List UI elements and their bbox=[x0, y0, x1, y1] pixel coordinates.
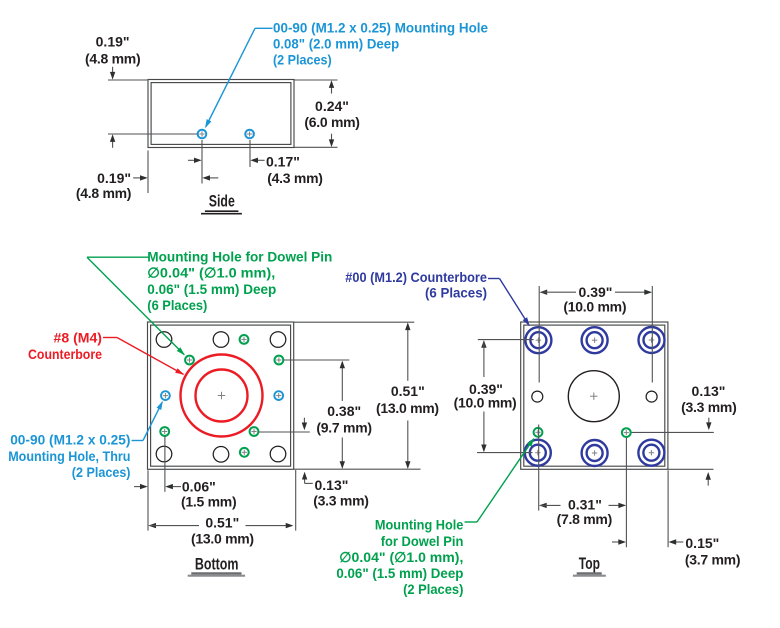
svg-text:Bottom: Bottom bbox=[195, 554, 239, 573]
svg-text:(4.8 mm): (4.8 mm) bbox=[85, 51, 140, 67]
svg-text:0.06" (1.5 mm) Deep: 0.06" (1.5 mm) Deep bbox=[336, 565, 463, 581]
svg-text:(3.3 mm): (3.3 mm) bbox=[681, 399, 736, 415]
dimension 0.19" (4.8 mm) top left bbox=[85, 34, 197, 148]
bottom view dowel pin hole G2 bbox=[275, 356, 284, 365]
svg-text:0.19": 0.19" bbox=[97, 170, 131, 186]
svg-text:0.17": 0.17" bbox=[266, 154, 300, 170]
dimension 0.06" (1.5 mm) bbox=[134, 479, 236, 510]
svg-text:(9.7 mm): (9.7 mm) bbox=[316, 419, 371, 435]
dimension 0.38" (9.7 mm) bbox=[316, 361, 371, 469]
side view mounting hole H1 (00-90) bbox=[198, 130, 207, 139]
leader label 00-90 mounting hole 2 places (side) bbox=[205, 20, 488, 129]
side view extension lines below bbox=[148, 140, 250, 193]
svg-text:Mounting Hole for Dowel Pin: Mounting Hole for Dowel Pin bbox=[147, 249, 332, 265]
top view #00 counterbore T5 bbox=[582, 440, 608, 466]
svg-text:(7.8 mm): (7.8 mm) bbox=[557, 511, 612, 527]
top view #00 counterbore T4 bbox=[525, 440, 551, 466]
leader label mounting hole for dowel pin 2 places bbox=[336, 438, 534, 597]
top view side hole left bbox=[532, 391, 543, 402]
leader label #00 (M1.2) counterbore 6 places bbox=[345, 269, 529, 327]
svg-text:00-90 (M1.2 x 0.25): 00-90 (M1.2 x 0.25) bbox=[10, 432, 130, 448]
bottom view #8 (M4) counterbore outer circle bbox=[181, 355, 263, 437]
svg-text:Counterbore: Counterbore bbox=[28, 346, 102, 362]
bottom view #8 (M4) counterbore inner circle bbox=[196, 370, 248, 422]
top view #00 counterbore T2 bbox=[582, 327, 608, 353]
leader label #8 (M4) counterbore bbox=[28, 330, 184, 375]
svg-text:0.38": 0.38" bbox=[327, 403, 361, 419]
svg-text:∅0.04" (∅1.0 mm),: ∅0.04" (∅1.0 mm), bbox=[339, 549, 463, 565]
svg-text:0.24": 0.24" bbox=[315, 98, 349, 114]
bottom view clearance hole B5 bbox=[213, 447, 229, 463]
svg-text:(4.8 mm): (4.8 mm) bbox=[76, 185, 131, 201]
dimension 0.31" (7.8 mm) bbox=[539, 425, 627, 548]
svg-text:(4.3 mm): (4.3 mm) bbox=[267, 170, 322, 186]
svg-text:0.51": 0.51" bbox=[205, 514, 239, 530]
dimension 0.51" (13.0 mm) vertical bbox=[376, 322, 439, 469]
leader label 00-90 mounting hole thru 2 places bbox=[8, 401, 163, 480]
bottom view dowel pin hole G1 bbox=[185, 356, 194, 365]
svg-text:0.39": 0.39" bbox=[579, 284, 613, 300]
bottom view 00-90 thru hole right bbox=[274, 391, 283, 400]
top view outline bbox=[521, 322, 668, 469]
svg-text:(6.0 mm): (6.0 mm) bbox=[304, 114, 359, 130]
dimension 0.15" (3.7 mm) bbox=[612, 470, 740, 567]
top view #00 counterbore T6 bbox=[638, 440, 664, 466]
svg-text:(3.3 mm): (3.3 mm) bbox=[313, 493, 368, 509]
dimension 0.13" (3.3 mm) bottom view bbox=[259, 418, 369, 509]
svg-text:(6 Places): (6 Places) bbox=[425, 285, 487, 301]
dimension 0.19" (4.8 mm) bottom left bbox=[76, 170, 218, 201]
bottom view clearance hole B3 bbox=[270, 332, 286, 348]
bottom view clearance hole B1 bbox=[156, 332, 172, 348]
top view #00 counterbore T3 bbox=[639, 327, 665, 353]
top view side hole right bbox=[646, 391, 657, 402]
svg-text:(2 Places): (2 Places) bbox=[403, 581, 463, 597]
top view dowel pin hole left bbox=[534, 428, 543, 437]
bottom view extension lines right bbox=[284, 322, 421, 469]
bottom view dowel pin hole G4 bbox=[160, 427, 169, 436]
bottom view center mark bbox=[218, 392, 225, 399]
svg-text:0.51": 0.51" bbox=[391, 383, 425, 399]
svg-text:0.15": 0.15" bbox=[685, 535, 719, 551]
bottom view dowel pin hole G6 bbox=[240, 448, 249, 457]
bottom view 00-90 thru hole left bbox=[161, 391, 170, 400]
dimension 0.17" (4.3 mm) hole spacing bbox=[188, 154, 323, 186]
top view center bore bbox=[568, 371, 619, 422]
svg-text:Mounting Hole: Mounting Hole bbox=[375, 517, 464, 533]
svg-text:Top: Top bbox=[579, 554, 600, 573]
svg-text:(10.0 mm): (10.0 mm) bbox=[563, 299, 626, 315]
svg-text:(13.0 mm): (13.0 mm) bbox=[376, 400, 439, 416]
bottom view dowel pin hole G3 bbox=[240, 335, 249, 344]
svg-text:(6 Places): (6 Places) bbox=[147, 297, 207, 313]
label Side bbox=[201, 192, 242, 214]
leader label mounting hole for dowel pin 6 places bbox=[87, 249, 332, 356]
bottom view extension lines below bbox=[148, 436, 296, 531]
side view outline bbox=[148, 80, 294, 148]
svg-text:for Dowel Pin: for Dowel Pin bbox=[381, 533, 464, 549]
svg-text:0.08" (2.0 mm) Deep: 0.08" (2.0 mm) Deep bbox=[273, 36, 399, 52]
dimension 0.24" (6.0 mm) side height bbox=[294, 80, 360, 147]
bottom view clearance hole B2 bbox=[213, 332, 229, 348]
svg-text:(10.0 mm): (10.0 mm) bbox=[454, 394, 517, 410]
svg-text:0.06" (1.5 mm) Deep: 0.06" (1.5 mm) Deep bbox=[147, 281, 276, 297]
dimension 0.39" (10.0 mm) vertical left bbox=[454, 340, 534, 453]
svg-text:#00 (M1.2) Counterbore: #00 (M1.2) Counterbore bbox=[345, 269, 487, 285]
svg-text:(2 Places): (2 Places) bbox=[72, 464, 131, 480]
top view #00 counterbore T1 bbox=[525, 327, 551, 353]
svg-text:0.19": 0.19" bbox=[96, 34, 130, 50]
dimension 0.39" (10.0 mm) horizontal top bbox=[539, 284, 652, 383]
svg-text:#8 (M4): #8 (M4) bbox=[54, 330, 103, 346]
label Top bbox=[573, 554, 606, 576]
dimension 0.13" (3.3 mm) top view bbox=[632, 383, 737, 486]
svg-text:Side: Side bbox=[209, 192, 235, 211]
svg-text:(13.0 mm): (13.0 mm) bbox=[191, 531, 254, 547]
svg-text:0.13": 0.13" bbox=[315, 477, 349, 493]
svg-text:(2 Places): (2 Places) bbox=[273, 52, 332, 68]
svg-text:0.13": 0.13" bbox=[692, 383, 726, 399]
svg-text:Mounting Hole, Thru: Mounting Hole, Thru bbox=[8, 448, 130, 464]
bottom view clearance hole B6 bbox=[270, 446, 286, 462]
svg-text:0.31": 0.31" bbox=[568, 497, 602, 513]
svg-text:(3.7 mm): (3.7 mm) bbox=[685, 551, 740, 567]
svg-text:00-90 (M1.2 x 0.25) Mounting H: 00-90 (M1.2 x 0.25) Mounting Hole bbox=[273, 20, 488, 36]
svg-text:0.06": 0.06" bbox=[182, 479, 216, 495]
label Bottom bbox=[188, 554, 245, 575]
bottom view outline bbox=[148, 322, 294, 469]
svg-text:(1.5 mm): (1.5 mm) bbox=[181, 494, 236, 510]
bottom view dowel pin hole G5 bbox=[250, 427, 259, 436]
bottom view clearance hole B4 bbox=[156, 446, 172, 462]
dimension 0.51" (13.0 mm) horizontal bbox=[148, 514, 293, 546]
side view mounting hole H2 (00-90) bbox=[245, 130, 254, 139]
top view dowel pin hole right bbox=[622, 428, 631, 437]
svg-text:∅0.04" (∅1.0 mm),: ∅0.04" (∅1.0 mm), bbox=[147, 265, 275, 281]
